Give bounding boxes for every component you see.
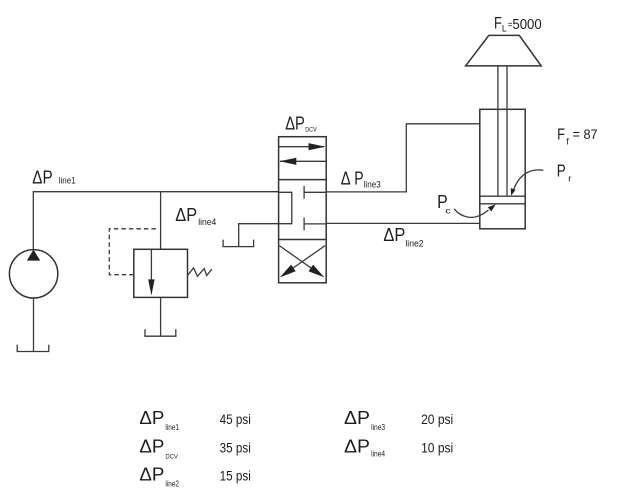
svg-text:20 psi: 20 psi	[421, 411, 453, 427]
svg-text:ΔP: ΔP	[344, 436, 370, 456]
DCV bottom position crossed arrows	[279, 246, 325, 278]
table row1 right: deltaP line3 20 psi	[344, 408, 453, 432]
svg-text:c: c	[445, 206, 451, 216]
pointer arrow Pc	[454, 204, 496, 217]
table row2 left: deltaP DCV 35 psi	[139, 436, 250, 460]
svg-text:line3: line3	[364, 179, 381, 190]
svg-text:ΔP: ΔP	[344, 408, 370, 428]
svg-text:line4: line4	[371, 448, 385, 458]
svg-text:ΔP: ΔP	[139, 408, 164, 428]
svg-text:line1: line1	[165, 422, 179, 432]
svg-text:line2: line2	[165, 479, 179, 489]
svg-text:r: r	[568, 174, 571, 185]
wire line2 DCV to cylinder bottom	[326, 222, 480, 224]
piston rod	[498, 66, 507, 196]
svg-text:ΔP: ΔP	[175, 205, 197, 225]
svg-text:ΔP: ΔP	[139, 464, 164, 484]
svg-text:35 psi: 35 psi	[220, 439, 251, 455]
DCV top position arrows	[279, 143, 327, 165]
table row1 left: deltaP line1 45 psi	[139, 408, 250, 432]
label deltaP DCV	[285, 113, 317, 133]
load trapezoid FL	[466, 35, 542, 66]
svg-text:DCV: DCV	[305, 127, 317, 134]
svg-text:line3: line3	[371, 422, 385, 432]
table row2 right: deltaP line4 10 psi	[344, 436, 453, 458]
svg-text:Δ: Δ	[341, 169, 351, 189]
label deltaP line3	[341, 169, 381, 191]
svg-text:line4: line4	[198, 217, 216, 228]
svg-text:= 87: = 87	[573, 127, 598, 142]
spring (relief valve)	[188, 268, 212, 276]
pointer arrow Pr	[511, 170, 544, 196]
tank below pump	[17, 345, 50, 352]
svg-text:5000: 5000	[512, 17, 541, 33]
wire pump suction	[33, 298, 35, 352]
label FL=5000	[494, 13, 542, 34]
svg-text:F: F	[557, 126, 565, 143]
wire line3 DCV to cylinder top	[326, 124, 480, 192]
svg-text:45 psi: 45 psi	[220, 411, 251, 427]
wire DCV to tank	[239, 224, 279, 247]
label Ff=87	[557, 126, 598, 146]
svg-text:P: P	[354, 169, 363, 189]
pump P1	[9, 250, 57, 298]
wire relief valve branch	[160, 192, 162, 250]
label Pr	[557, 160, 572, 184]
tank below relief valve	[144, 329, 176, 336]
DCV center position blocked ports	[279, 186, 326, 230]
label deltaP line1	[32, 168, 75, 188]
svg-text:10 psi: 10 psi	[421, 439, 453, 455]
svg-text:ΔP: ΔP	[285, 113, 305, 133]
svg-text:ΔP: ΔP	[383, 225, 405, 245]
pilot line dashed	[109, 229, 158, 275]
DCV body U1	[279, 137, 327, 283]
svg-text:DCV: DCV	[165, 453, 178, 460]
label Pc	[437, 192, 452, 215]
svg-text:line2: line2	[405, 238, 423, 249]
tank below DCV	[222, 240, 254, 247]
label deltaP line4	[175, 205, 216, 228]
relief valve V1	[134, 249, 188, 297]
svg-text:L: L	[502, 23, 507, 34]
svg-text:F: F	[494, 13, 502, 32]
svg-text:ΔP: ΔP	[139, 436, 164, 456]
svg-text:line1: line1	[59, 176, 76, 187]
cylinder C1	[480, 109, 525, 229]
svg-text:f: f	[566, 137, 569, 147]
table row3 left: deltaP line2 15 psi	[139, 464, 250, 488]
svg-text:P: P	[557, 160, 566, 180]
svg-text:ΔP: ΔP	[32, 168, 52, 188]
wire pump to DCV	[33, 192, 278, 250]
label deltaP line2	[383, 225, 423, 250]
wire relief valve to tank	[160, 297, 162, 336]
svg-text:15 psi: 15 psi	[220, 467, 251, 483]
